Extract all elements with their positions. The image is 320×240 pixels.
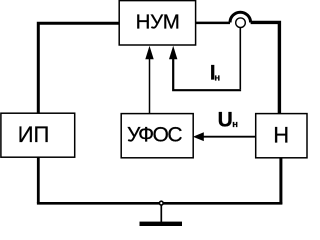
svg-text:ИП: ИП <box>18 122 50 147</box>
svg-text:УФОС: УФОС <box>127 123 182 146</box>
wire: bottom rail <box>37 202 282 205</box>
wire: НУМ right to current-probe arc <box>196 22 231 25</box>
box Н <box>256 114 307 158</box>
box НУМ <box>119 1 195 45</box>
wire: rail up to Н bottom <box>279 158 282 205</box>
wire: arc to top-right corner, down to Н top <box>251 22 280 113</box>
arrowhead into НУМ bottom (left arrow) <box>145 46 153 60</box>
wire: УФОС top up into НУМ <box>149 57 151 114</box>
svg-text:Н: Н <box>273 123 289 148</box>
node (junction) on bottom rail <box>159 201 163 205</box>
arrowhead into НУМ bottom (right arrow) <box>169 46 177 60</box>
wire: Н left to УФОС right <box>202 136 256 138</box>
wire: Iн feedback, circle down / left / up into НУМ <box>239 28 241 89</box>
ground stem <box>160 205 162 222</box>
wire: НУМ left to ИП top (left loop) <box>38 23 119 113</box>
arrowhead into УФОС right edge <box>193 132 204 141</box>
current probe arc over circle <box>230 12 251 22</box>
box ИП <box>1 113 75 157</box>
svg-text:НУМ: НУМ <box>136 11 180 34</box>
current probe circle <box>236 18 246 28</box>
box УФОС <box>121 114 193 158</box>
wire: ИП bottom down to bottom rail <box>37 157 40 203</box>
ground bar <box>140 222 183 226</box>
